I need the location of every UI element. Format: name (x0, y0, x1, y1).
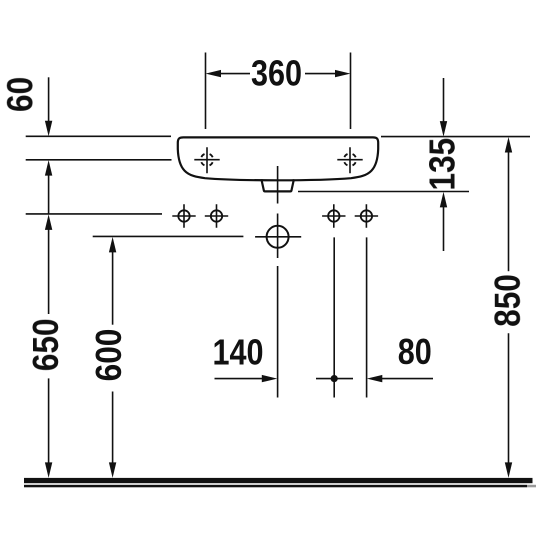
60 arrow up at faucet line (45, 160, 52, 176)
mounting hole 4 (355, 204, 378, 227)
svg-text:140: 140 (212, 333, 263, 373)
drain crosshair (255, 214, 301, 259)
svg-text:135: 135 (423, 138, 463, 191)
svg-text:650: 650 (26, 318, 66, 371)
floor thick line (24, 478, 533, 483)
850 arrow up at rim line (505, 137, 512, 153)
80 dim line (381, 378, 433, 380)
drain box below basin (261, 179, 294, 191)
650 dim line upper part (48, 228, 50, 314)
drain level reference line (600) (93, 235, 244, 237)
drain circle (267, 226, 289, 248)
360 arrow right (335, 70, 351, 77)
60 arrow down at rim line (45, 121, 52, 137)
dim stub through dot (316, 378, 353, 380)
faucet hole left: dashed circle (201, 154, 213, 166)
faucet hole left: crosshair (194, 147, 219, 173)
135 arrow up at basin bottom line (440, 192, 447, 208)
basin bottom reference line right (135) (298, 191, 469, 193)
600 arrow up at drain level line (109, 237, 116, 253)
650 dim line lower part (48, 378, 50, 463)
faucet hole right: dashed circle (344, 154, 356, 166)
600 arrow down at floor (109, 462, 116, 478)
svg-text:60: 60 (1, 77, 41, 112)
650 arrow up at hole line (45, 214, 52, 230)
360 arrow left (206, 70, 222, 77)
washbasin outline (178, 137, 378, 180)
135 lower tail (443, 206, 445, 251)
rim level reference line right (381, 136, 530, 138)
140 arrow right at drain centerline (262, 375, 278, 382)
600 dim line upper part (112, 251, 114, 325)
svg-text:360: 360 (251, 54, 302, 94)
650 arrow down at floor (45, 462, 52, 478)
60 dim upper line (48, 77, 50, 122)
rim level reference line left (26, 135, 171, 137)
850 dim line lower part (508, 333, 510, 463)
60 lower tail to hole line (48, 174, 50, 214)
svg-text:850: 850 (488, 274, 528, 327)
360 dimension line (219, 73, 336, 75)
mounting hole 3 (322, 204, 345, 227)
hole centerline left of pair (333, 237, 335, 397)
600 dim line lower part (112, 392, 114, 464)
floor thin line gray tail (527, 485, 536, 488)
360 extension line right (350, 53, 352, 130)
80 arrow left at right hole centerline (367, 375, 383, 382)
135 arrow down at rim line (440, 121, 447, 137)
850 dim line upper part (508, 151, 510, 271)
faucet level reference line left (26, 159, 172, 161)
svg-text:600: 600 (89, 329, 129, 382)
hole centerline right of pair (366, 237, 368, 397)
140 dim line (215, 378, 264, 380)
135 dim upper line (443, 78, 445, 123)
drain centerline (dashed vertical) (277, 166, 279, 398)
hole row reference line left (26, 213, 162, 215)
360 extension line left (205, 53, 207, 130)
svg-text:80: 80 (398, 333, 432, 373)
mounting hole 1 (172, 204, 195, 227)
faucet hole right: crosshair (337, 147, 362, 173)
dot terminator on hole centerline (331, 375, 338, 382)
floor thin line (24, 485, 527, 488)
mounting hole 2 (205, 204, 228, 227)
850 arrow down at floor (505, 462, 512, 478)
